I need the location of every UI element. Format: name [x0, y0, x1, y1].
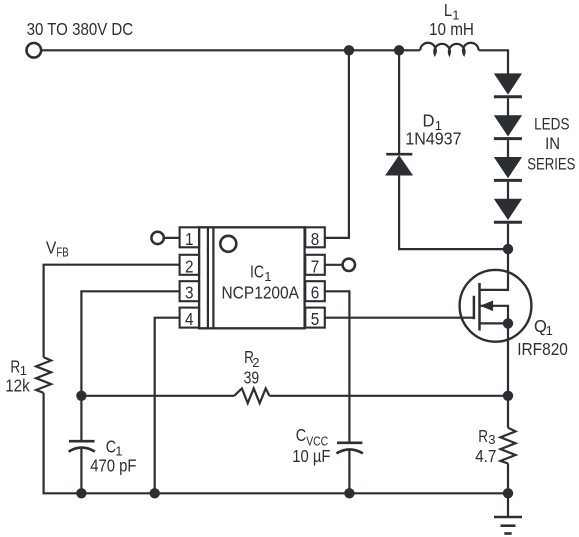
svg-text:8: 8: [311, 229, 320, 249]
ground: [494, 493, 522, 533]
svg-text:NCP1200A: NCP1200A: [222, 282, 300, 302]
svg-text:LEDS: LEDS: [534, 116, 570, 134]
svg-text:V: V: [46, 238, 57, 258]
wire drain into mosfet: [480, 249, 509, 290]
node pin3/C1/R2 junction: [76, 391, 86, 401]
node source dot: [503, 318, 513, 328]
node drain junction: [503, 244, 513, 254]
IC1 body: [199, 227, 305, 328]
wire pin8 to top rail: [325, 50, 349, 238]
wire junction to C1: [80, 396, 82, 441]
wire pin4 down to rail: [155, 318, 180, 494]
svg-text:12k: 12k: [5, 376, 30, 396]
svg-text:7: 7: [311, 256, 320, 276]
pin7 terminal circle: [343, 259, 355, 271]
wire D1 bottom to drain node: [399, 175, 508, 249]
wire LED3-LED4: [507, 182, 509, 200]
transistor Q1 circle: [460, 270, 532, 342]
IC1 pin1 indicator circle: [220, 236, 236, 252]
input terminal: [27, 43, 42, 58]
resistor R2: [234, 388, 269, 403]
wire D1 top: [398, 50, 400, 153]
svg-text:IN: IN: [545, 135, 560, 153]
node R2/R3/source junction: [503, 391, 513, 401]
Q1 body arrow: [480, 301, 509, 323]
svg-text:IRF820: IRF820: [517, 339, 568, 359]
svg-text:D: D: [423, 111, 435, 131]
wire top rail left: [42, 49, 420, 51]
wire pin2 VFB left: [44, 265, 180, 358]
svg-text:R: R: [10, 356, 20, 376]
svg-text:IC: IC: [250, 262, 264, 282]
svg-text:4.7: 4.7: [475, 446, 496, 466]
pin 6 box: [305, 281, 325, 301]
resistor R3: [501, 428, 516, 464]
svg-text:FB: FB: [56, 244, 68, 259]
resistor R1: [36, 357, 51, 393]
Q1 channel line: [478, 283, 481, 331]
pin 7 box: [305, 255, 325, 275]
svg-text:470 pF: 470 pF: [90, 455, 136, 475]
LED 2: [494, 116, 522, 139]
wire C1 bottom: [80, 449, 82, 494]
wire gate lead from pin5: [325, 317, 474, 319]
wire pin6 down to Cvcc: [325, 291, 350, 441]
wire R2 line: [81, 395, 234, 397]
node rail C1: [76, 488, 86, 498]
node rail pin4: [150, 488, 160, 498]
pin 5 box: [305, 308, 325, 328]
svg-text:1N4937: 1N4937: [405, 129, 461, 149]
svg-text:1: 1: [185, 229, 194, 249]
pin 1 box: [180, 227, 200, 247]
svg-text:10 mH: 10 mH: [429, 19, 474, 39]
wire Cvcc bottom: [348, 450, 350, 493]
svg-text:5: 5: [311, 309, 320, 329]
Q1 gate bar: [473, 296, 476, 319]
pin 2 box: [180, 255, 200, 275]
pin1 terminal circle: [151, 232, 163, 244]
capacitor Cvcc: [336, 443, 363, 454]
wire pin1 terminal: [164, 237, 180, 239]
svg-text:SERIES: SERIES: [527, 156, 575, 174]
svg-text:30 TO 380V DC: 30 TO 380V DC: [27, 19, 134, 39]
svg-text:3: 3: [488, 432, 495, 447]
capacitor C1: [69, 441, 95, 451]
pin 4 box: [180, 308, 200, 328]
pin 8 box: [305, 227, 325, 247]
svg-text:10 µF: 10 µF: [292, 446, 330, 466]
wire to R3: [507, 396, 509, 428]
svg-text:R: R: [478, 426, 488, 446]
wire LED4 to drain node: [507, 224, 509, 249]
wire R3 bottom: [507, 463, 509, 493]
wire pin7 terminal: [325, 264, 343, 266]
wire R1 bottom to rail: [44, 393, 508, 493]
pin 3 box: [180, 281, 200, 301]
LED 4: [494, 200, 522, 223]
IC1 inner line 1: [207, 227, 209, 328]
wire LED1-LED2: [507, 98, 509, 116]
inductor L1: [420, 43, 478, 55]
node rail Cvcc: [344, 488, 354, 498]
svg-text:3: 3: [185, 283, 194, 303]
svg-text:2: 2: [185, 256, 194, 276]
wire R2 to right node: [269, 395, 508, 397]
node junction top A: [344, 45, 354, 55]
node rail R3/ground: [503, 488, 513, 498]
wire LED2-LED3: [507, 140, 509, 158]
wire pin3 left down: [81, 291, 179, 396]
svg-text:39: 39: [244, 367, 260, 387]
diode D1: [386, 154, 412, 175]
svg-text:C: C: [296, 425, 306, 445]
LED 1: [494, 74, 522, 97]
wire source down to R2/R3 node: [507, 323, 509, 395]
wire top rail right: [479, 50, 508, 74]
node junction top B: [394, 45, 404, 55]
svg-text:6: 6: [311, 283, 320, 303]
IC1 inner line 2: [212, 227, 214, 328]
svg-text:4: 4: [185, 309, 194, 329]
Q1 source bar: [480, 322, 509, 324]
LED 3: [494, 158, 522, 181]
svg-text:L: L: [444, 0, 453, 20]
svg-text:1: 1: [546, 323, 553, 338]
